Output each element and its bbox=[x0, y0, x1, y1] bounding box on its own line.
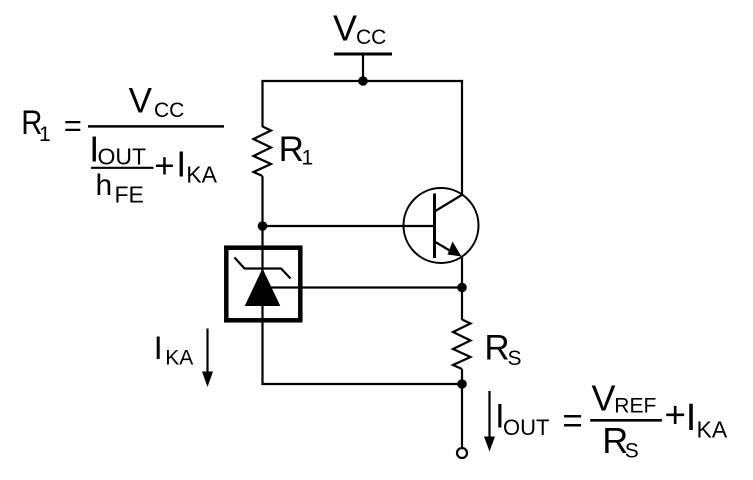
wire emitter bbox=[461, 256, 463, 288]
svg-text:CC: CC bbox=[154, 99, 184, 122]
label R1 bbox=[279, 130, 314, 170]
svg-text:1: 1 bbox=[302, 147, 314, 170]
wire base bbox=[263, 225, 435, 227]
transistor Q1 collector lead bbox=[435, 195, 463, 212]
svg-text:1: 1 bbox=[39, 123, 51, 146]
wire top rail bbox=[261, 80, 463, 82]
wire left branch upper bbox=[261, 81, 263, 127]
svg-text:KA: KA bbox=[697, 417, 728, 443]
svg-text:h: h bbox=[96, 169, 113, 202]
formula IOUT = VREF/RS + IKA bbox=[495, 377, 728, 462]
svg-text:R: R bbox=[484, 328, 509, 367]
svg-text:R: R bbox=[279, 130, 304, 169]
svg-text:FE: FE bbox=[115, 182, 144, 208]
wire bottom rail bbox=[261, 383, 463, 385]
transistor Q1 emitter arrow bbox=[448, 242, 462, 257]
wire left branch through shunt box to bottom rail bbox=[261, 176, 263, 384]
current arrow IOUT bbox=[484, 391, 495, 452]
power symbol VCC label bbox=[333, 8, 386, 50]
label IKA bbox=[154, 330, 194, 370]
terminal output open circle bbox=[457, 448, 467, 458]
svg-text:V: V bbox=[129, 82, 153, 121]
transistor Q1 collector wire bbox=[461, 81, 463, 196]
svg-text:I: I bbox=[176, 144, 186, 185]
resistor R1 bbox=[254, 127, 272, 177]
wire VCC stub bbox=[362, 54, 364, 82]
svg-text:OUT: OUT bbox=[98, 144, 147, 170]
transistor Q1 emitter lead bbox=[435, 242, 454, 253]
junction VCC node bbox=[358, 76, 368, 86]
formula R1 = VCC / (IOUT/hFE + IKA) bbox=[21, 82, 224, 208]
svg-text:I: I bbox=[686, 397, 697, 439]
svg-text:=: = bbox=[562, 401, 582, 440]
shunt reference U1 cathode bar bbox=[235, 258, 291, 279]
wire emitter to RS bbox=[461, 288, 463, 320]
svg-text:OUT: OUT bbox=[503, 415, 549, 440]
resistor RS bbox=[453, 320, 471, 370]
svg-text:=: = bbox=[64, 108, 82, 143]
junction emitter node bbox=[457, 283, 467, 293]
svg-text:+: + bbox=[664, 395, 686, 436]
transistor Q1 circle bbox=[404, 188, 479, 263]
svg-text:+: + bbox=[154, 146, 174, 185]
shunt reference U1 box bbox=[226, 248, 300, 321]
wire output stub bbox=[461, 384, 463, 448]
svg-text:V: V bbox=[333, 8, 357, 49]
svg-text:KA: KA bbox=[186, 162, 217, 188]
svg-text:S: S bbox=[508, 347, 522, 370]
svg-text:CC: CC bbox=[356, 26, 386, 49]
shunt reference U1 triangle bbox=[246, 270, 280, 306]
power symbol VCC bar bbox=[334, 53, 392, 56]
svg-text:S: S bbox=[625, 440, 639, 463]
current arrow IKA bbox=[202, 329, 213, 388]
svg-text:I: I bbox=[154, 330, 163, 366]
svg-text:V: V bbox=[592, 377, 616, 418]
transistor Q1 base bar bbox=[433, 194, 436, 259]
label RS bbox=[484, 328, 521, 370]
wire RS to bottom rail bbox=[461, 369, 463, 384]
wire reference pin bbox=[268, 286, 463, 288]
junction base node bbox=[258, 221, 268, 231]
junction output node bbox=[457, 379, 467, 389]
svg-text:KA: KA bbox=[165, 346, 193, 369]
svg-text:REF: REF bbox=[614, 394, 656, 417]
